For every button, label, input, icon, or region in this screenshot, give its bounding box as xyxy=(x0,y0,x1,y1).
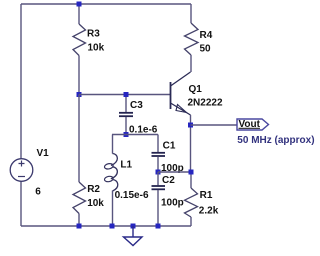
capacitor C3 xyxy=(119,95,133,135)
svg-text:C2: C2 xyxy=(162,175,175,186)
resistor R1 xyxy=(185,172,198,226)
svg-text:R4: R4 xyxy=(200,30,213,41)
wire left rail upper xyxy=(20,4,22,159)
svg-text:Vout: Vout xyxy=(239,119,261,130)
wire emitter to Vout tag xyxy=(191,124,238,126)
node R1 top junction dot (191,172) xyxy=(189,170,194,175)
svg-text:L1: L1 xyxy=(120,160,132,171)
node emitter junction dot (190.5,125) xyxy=(188,123,193,128)
capacitor C2 xyxy=(152,172,166,226)
ground xyxy=(124,226,143,246)
svg-text:10k: 10k xyxy=(87,198,104,209)
node C3 top junction dot (126,94.5) xyxy=(124,92,129,97)
wire base from node B to Q1 xyxy=(79,94,170,96)
svg-text:6: 6 xyxy=(35,187,41,198)
svg-text:2.2k: 2.2k xyxy=(199,206,219,217)
svg-text:Q1: Q1 xyxy=(189,84,203,95)
svg-text:R2: R2 xyxy=(87,184,100,195)
svg-text:C1: C1 xyxy=(163,141,176,152)
node A junction dot (79,4) xyxy=(77,2,82,7)
resistor R3 xyxy=(73,4,86,95)
svg-text:50: 50 xyxy=(200,44,212,55)
node tank top junction dot (126,134.5) xyxy=(124,132,129,137)
svg-text:0.15e-6: 0.15e-6 xyxy=(115,190,149,201)
capacitor C1 xyxy=(152,135,166,173)
svg-text:10k: 10k xyxy=(88,43,105,54)
node R2 bottom junction dot (79,226) xyxy=(77,224,82,229)
svg-text:2N2222: 2N2222 xyxy=(188,98,223,109)
svg-text:100p: 100p xyxy=(161,198,184,209)
svg-text:R1: R1 xyxy=(200,190,213,201)
voltage source V1 xyxy=(10,159,33,182)
resistor R2 xyxy=(73,95,86,227)
transistor Q1 xyxy=(171,72,191,115)
wire left rail lower xyxy=(20,182,22,227)
svg-text:R3: R3 xyxy=(87,29,100,40)
node B junction dot (79,94.5) xyxy=(77,92,82,97)
node C2 bottom junction dot (158,226) xyxy=(156,224,161,229)
svg-text:V1: V1 xyxy=(37,148,50,159)
resistor R4 xyxy=(185,4,199,72)
wire emitter vertical xyxy=(190,115,192,172)
inductor L1 xyxy=(104,135,118,227)
net tag Vout xyxy=(237,119,269,130)
node C1-C2 junction dot (158,172) xyxy=(156,170,161,175)
svg-text:50 MHz (approx): 50 MHz (approx) xyxy=(237,135,314,146)
svg-text:C3: C3 xyxy=(130,100,143,111)
node ground junction dot (133,226) xyxy=(131,224,136,229)
wire tank top rail xyxy=(112,134,158,136)
wire top bus xyxy=(21,3,191,5)
wire C junction to emitter rail xyxy=(158,171,191,173)
wire bottom bus xyxy=(21,225,191,227)
node L1 bottom junction dot (112,226) xyxy=(110,224,115,229)
